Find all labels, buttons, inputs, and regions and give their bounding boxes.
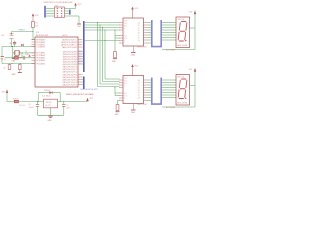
wire bus to DIS1 pins	[162, 22, 176, 24]
svg-text:GND: GND	[12, 74, 17, 76]
wire RESET net	[32, 28, 34, 40]
wire IC2 outputs into bus	[148, 22, 152, 24]
ground at R2	[113, 58, 117, 60]
capacitor C5	[9, 64, 11, 65]
bus main display bus	[83, 21, 85, 72]
wire switch to crystal row	[11, 32, 13, 34]
supply VCC at R1	[32, 13, 35, 16]
svg-text:GND: GND	[131, 112, 136, 114]
bus RESET/SPI (left of SV1)	[44, 6, 46, 18]
svg-text:74HC595N: 74HC595N	[137, 47, 147, 49]
svg-text:C2: C2	[66, 105, 68, 107]
supply VCC at IC2	[131, 7, 134, 10]
svg-text:10u/16: 10u/16	[29, 107, 34, 109]
ground at crystal	[12, 58, 15, 60]
capacitor C1	[37, 102, 39, 105]
wire IC3 outputs into bus	[148, 79, 152, 81]
svg-text:IN OUT: IN OUT	[45, 105, 51, 107]
bus segment bus to display DIS2	[152, 78, 161, 105]
wire net into IC3 lower pins	[114, 88, 116, 96]
svg-text:BOTT.DISP: BOTT.DISP	[166, 50, 176, 52]
svg-text:Q1: Q1	[25, 51, 27, 53]
wire regulator output	[58, 101, 88, 103]
ground at R3	[116, 111, 120, 113]
digit 8 of DIS2	[178, 79, 189, 99]
wire bus to DIS2 pins	[162, 79, 176, 81]
display DIS2 body	[176, 75, 190, 106]
wire GND row	[2, 63, 35, 65]
supply VCC output	[86, 98, 89, 102]
svg-text:C5: C5	[29, 104, 31, 106]
wire left pin stubs IC1	[32, 39, 36, 41]
ground pin IC2	[132, 46, 134, 52]
wire DIS1 common anode	[194, 14, 196, 49]
svg-text:100n: 100n	[66, 107, 70, 109]
crystal Q1	[13, 52, 15, 54]
svg-text:10k: 10k	[35, 26, 38, 28]
wire SV1 pin2 to VCC	[65, 8, 76, 10]
wire XTAL2 net	[20, 52, 35, 54]
ground at SV1	[77, 23, 81, 25]
pins right IC3	[144, 79, 148, 81]
ground pin IC3	[132, 104, 134, 110]
svg-text:S1: S1	[2, 35, 4, 37]
ground power section	[48, 115, 53, 117]
bus lower stub	[83, 77, 85, 90]
resistor R3 pulldown	[118, 100, 120, 102]
capacitor C6	[19, 64, 21, 65]
svg-text:74HC595N: 74HC595N	[137, 104, 147, 106]
pins left IC3	[119, 79, 123, 81]
svg-text:78L05Z: 78L05Z	[45, 102, 52, 104]
bus stub right of SV1	[69, 10, 71, 15]
capacitor C3	[14, 41, 16, 43]
display DIS1 body	[176, 17, 190, 48]
resistor R2 pulldown	[114, 30, 116, 52]
svg-text:RESET: RESET	[19, 29, 26, 31]
digit 8 of DIS1	[178, 22, 189, 42]
bus segment bus to display DIS1	[152, 20, 161, 47]
svg-text:B1_DC: B1_DC	[20, 105, 26, 107]
capacitor plates	[22, 56, 24, 60]
wire DIS2 common anode	[194, 72, 196, 107]
supply VCC at SV1	[74, 3, 77, 6]
ground lower-left	[19, 70, 21, 73]
wire ground rail	[38, 114, 64, 116]
supply VCC at IC3	[131, 64, 134, 67]
svg-text:BOTT.DISP: BOTT.DISP	[166, 107, 176, 109]
svg-text:R1: R1	[35, 23, 37, 25]
wire XTAL1 net	[2, 46, 35, 48]
supply mark	[28, 55, 31, 57]
wire SV1 pins 4,6 to bus	[65, 10, 70, 12]
wire regulator input	[7, 101, 44, 103]
diode D2 on row	[14, 56, 18, 59]
resistor R1 10k	[32, 22, 35, 28]
capacitor C2	[63, 102, 65, 105]
wire SV1 left nets	[46, 8, 55, 10]
wire SV1 pin8 to ground	[65, 15, 80, 17]
microcontroller IC1 body	[35, 37, 78, 87]
wire MCU to bus nets	[82, 51, 83, 53]
IC IC3 74HC595 body	[123, 76, 144, 104]
wire vertical nets to IC3	[97, 23, 99, 87]
svg-text:GND: GND	[131, 55, 136, 57]
svg-text:C5: C5	[3, 68, 5, 70]
ground left edge	[1, 47, 3, 57]
wire nets bus to IC2 (top rows)	[85, 22, 120, 24]
pins right IC2	[144, 22, 148, 24]
diode marker	[21, 44, 23, 46]
IC IC2 74HC595 body	[123, 18, 144, 46]
pins left IC2	[119, 22, 123, 24]
svg-text:GND: GND	[48, 120, 53, 122]
svg-text:IC4 78L05: IC4 78L05	[42, 95, 51, 97]
